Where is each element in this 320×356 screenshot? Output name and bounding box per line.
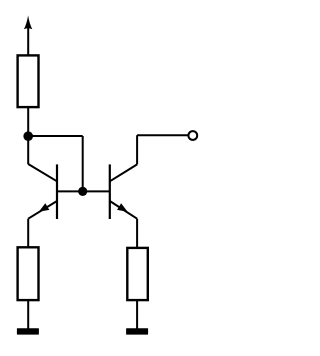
power supply arrow (VCC) [24,15,32,55]
transistor Q2 (right NPN) [110,164,137,219]
wire: R3 to right ground [136,300,138,329]
ground (left) [17,328,39,334]
resistor R3 (bottom right) [127,248,148,300]
wire: collector to output terminal [137,134,189,136]
resistor R2 (bottom left) [18,247,39,300]
wire: Q2 collector up [136,135,138,164]
ground (right) [126,328,148,334]
wire: node A down to Q1 collector [27,136,29,164]
output terminal (open circle) [188,131,197,140]
wire: base bus between Q1 and Q2 [57,190,110,192]
wire: R1 bottom to node A [27,107,29,136]
wire: Q2 emitter to R3 [136,219,138,248]
transistor Q1 (left NPN, mirrored, diode-connected) [28,164,57,219]
wire: node A horizontal to feedback loop [28,135,82,137]
wire: Q1 emitter to R2 [27,219,29,248]
node B junction dot (base node) [78,187,87,196]
resistor R1 (top left) [18,55,39,107]
node A junction dot [23,131,33,141]
wire: feedback loop vertical down to base node [82,136,84,191]
wire: R2 to left ground [27,300,29,329]
